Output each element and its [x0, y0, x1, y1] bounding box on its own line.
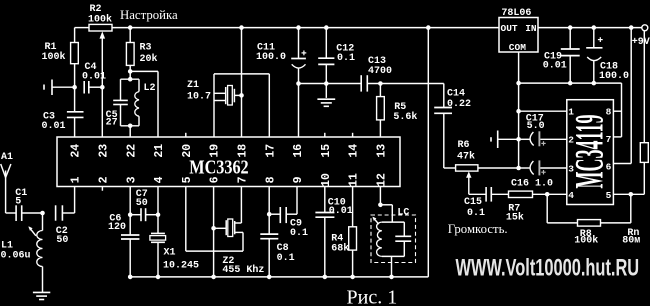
resistor R5 to pin 13: [377, 84, 418, 138]
regulator 78L06: [499, 8, 538, 53]
svg-text:0.1: 0.1: [467, 208, 485, 219]
svg-text:11: 11: [348, 173, 361, 187]
capacitor C13: [361, 56, 392, 92]
svg-text:19: 19: [209, 144, 222, 158]
pin 15 stub: [324, 133, 326, 137]
node Z2 input junction: [211, 226, 216, 231]
svg-text:24: 24: [70, 144, 83, 158]
wire audio junction row: [299, 83, 444, 85]
capacitor C10: [315, 187, 352, 277]
svg-text:16: 16: [292, 144, 305, 158]
node C11 junction: [296, 81, 301, 86]
svg-text:10.7: 10.7: [187, 92, 211, 103]
svg-text:Настройка: Настройка: [120, 8, 178, 22]
svg-text:2: 2: [98, 176, 111, 183]
svg-text:12: 12: [376, 173, 389, 187]
svg-text:15k: 15k: [506, 211, 524, 223]
op-amp U2 MC34119 box: [567, 100, 614, 205]
wire pin 16 down from C11: [298, 84, 300, 138]
svg-text:A1: A1: [1, 152, 13, 163]
text Громкость volume label: [448, 222, 508, 236]
pin 21 number: [153, 144, 166, 158]
pin 20 stub: [185, 133, 187, 137]
pin 12 number: [376, 173, 389, 187]
svg-text:0.01: 0.01: [543, 61, 567, 72]
wire R6 wiper row: [469, 193, 486, 195]
speaker Rn 80 ohm: [622, 31, 648, 247]
svg-text:17: 17: [264, 144, 277, 158]
antenna A1: [1, 152, 13, 213]
node LC ground: [389, 275, 394, 280]
inductor L2 tank right branch: [135, 79, 156, 126]
wire pin 1 row: [519, 110, 567, 112]
svg-text:1: 1: [568, 107, 574, 118]
capacitor C4: [82, 62, 106, 94]
node pin 4 feedback junction: [545, 192, 550, 197]
ceramic filter Z1 10.7MHz: [187, 80, 242, 105]
node C6 ground: [128, 275, 133, 280]
svg-text:0.1: 0.1: [337, 53, 355, 64]
node Z1 output on pin 18 wire: [239, 93, 244, 98]
ground under L1: [33, 292, 50, 299]
wire pin 5 bracket under Z2: [186, 187, 243, 252]
wire +9V rail from 78L06 IN to +9V terminal: [538, 27, 642, 29]
svg-text:3: 3: [568, 164, 574, 175]
wire pin 1 corner: [74, 187, 76, 214]
capacitor C11 electrolytic: [256, 25, 306, 83]
wire R2 wiper with arrow to pin 23: [100, 31, 106, 137]
svg-text:14: 14: [348, 144, 361, 158]
wire into LC tank: [380, 205, 392, 222]
wire bottom ground rail: [130, 276, 428, 278]
svg-text:0.01: 0.01: [42, 121, 66, 132]
svg-text:20: 20: [181, 144, 194, 158]
wire pin 5 row: [613, 193, 644, 195]
capacitor C9: [269, 187, 308, 240]
svg-text:MC34119: MC34119: [566, 115, 611, 189]
LC tank bottom node: [382, 256, 405, 277]
wire ground bus right: [519, 83, 622, 137]
wire pin 6 up to +9V rail: [613, 25, 633, 163]
svg-text:20k: 20k: [140, 53, 158, 65]
microphone input jack left: [44, 80, 75, 96]
node rail R3 junction: [128, 25, 133, 30]
node R6/C16 junction: [516, 166, 521, 171]
svg-text:5.6k: 5.6k: [393, 111, 417, 123]
wire pin 3 down: [129, 187, 131, 215]
svg-text:23: 23: [98, 144, 111, 158]
node R1/C4/C3 junction: [72, 85, 77, 90]
svg-text:0.01: 0.01: [329, 206, 353, 217]
svg-text:68k: 68k: [331, 243, 349, 255]
svg-text:MC3362: MC3362: [189, 156, 248, 178]
svg-text:0.1: 0.1: [290, 228, 308, 239]
pin 18 number: [237, 144, 250, 158]
pin 3 number: [125, 176, 138, 183]
pin 5 label: [606, 190, 612, 201]
tank circuit top node: [121, 71, 140, 81]
svg-text:R3: R3: [140, 43, 152, 54]
pin 20 number: [181, 144, 194, 158]
svg-text:100k: 100k: [88, 13, 112, 25]
svg-text:+9V: +9V: [632, 37, 650, 48]
svg-text:455 Khz: 455 Khz: [222, 264, 264, 276]
svg-text:8: 8: [264, 176, 277, 183]
text MC34119: [566, 115, 611, 189]
svg-text:7: 7: [237, 176, 250, 183]
pin 17 number: [264, 144, 277, 158]
capacitor C17 electrolytic: [519, 113, 567, 146]
node C8 ground: [267, 275, 272, 280]
svg-text:5.0: 5.0: [527, 121, 545, 132]
text Настройка tuning label: [120, 8, 178, 22]
svg-text:C16 1.0: C16 1.0: [511, 178, 553, 189]
capacitor C8: [260, 234, 294, 277]
capacitor C of LC tank: [395, 222, 411, 256]
node antenna coupling junction: [40, 211, 45, 216]
svg-text:6: 6: [606, 161, 612, 172]
node pin 4 junction: [156, 212, 161, 217]
svg-text:Z1: Z1: [187, 80, 199, 91]
ground under C12: [317, 84, 335, 107]
svg-text:5: 5: [15, 197, 21, 208]
svg-text:7: 7: [606, 134, 612, 145]
svg-text:80м: 80м: [622, 235, 640, 246]
wire COM lead down: [518, 52, 520, 83]
node pin 8 junction: [267, 212, 272, 217]
svg-text:WWW.Volt10000.hut.RU: WWW.Volt10000.hut.RU: [456, 255, 640, 282]
node microphone junction: [516, 137, 521, 142]
svg-text:C15: C15: [464, 197, 482, 208]
pin 4 label: [568, 190, 574, 201]
wire +6V supply rail from R2 to 78L06 OUT: [112, 27, 499, 29]
resistor R7: [506, 191, 567, 223]
wire feedback down: [547, 194, 577, 223]
pin 11 number: [348, 173, 361, 187]
text watermark WWW.Volt10000.hut.RU: [456, 255, 640, 282]
svg-text:2: 2: [568, 134, 574, 145]
svg-text:10: 10: [320, 173, 333, 187]
svg-text:18: 18: [237, 144, 250, 158]
svg-text:1: 1: [70, 176, 83, 183]
wire input bus down from COM: [518, 83, 520, 168]
svg-text:4: 4: [153, 176, 166, 183]
inductor L1: [1, 213, 43, 292]
svg-text:COM: COM: [509, 42, 526, 53]
svg-text:50: 50: [136, 198, 148, 209]
wire from R3 junction to pin 21: [130, 71, 158, 137]
svg-text:IN: IN: [525, 23, 537, 34]
wire long vertical bus rail to bottom ground rail: [426, 25, 431, 277]
pin 8 number: [264, 176, 277, 183]
pin 9 number: [292, 176, 305, 183]
text Рис. 1 caption: [347, 287, 398, 306]
pin 7 label: [606, 134, 612, 145]
ceramic filter Z2 455kHz: [214, 187, 265, 276]
pin 2 number: [98, 176, 111, 183]
node C10 ground: [323, 275, 328, 280]
svg-text:120: 120: [108, 222, 126, 233]
svg-text:0.01: 0.01: [82, 72, 106, 83]
svg-text:100k: 100k: [42, 51, 66, 63]
pin 23 number: [98, 144, 111, 158]
svg-text:4700: 4700: [368, 66, 392, 77]
node pin 6 ground: [211, 275, 216, 280]
wire R2 left end down to R1: [75, 28, 89, 43]
capacitor C2: [56, 205, 75, 246]
pin 15 number: [320, 144, 333, 158]
potentiometer R2: [88, 4, 112, 31]
pin 24 number: [70, 144, 83, 158]
svg-text:0.1: 0.1: [277, 253, 295, 264]
tank circuit bottom node to pin 22: [121, 124, 140, 138]
svg-text:5: 5: [181, 176, 194, 183]
wire R1 bottom to node: [74, 64, 76, 87]
wire pin 6 down to ground rail: [213, 187, 215, 277]
node R5 junction: [378, 81, 383, 86]
capacitor C16 electrolytic: [511, 160, 567, 189]
resistor R1: [42, 42, 79, 64]
pin 22 number: [125, 144, 138, 158]
node X1 ground: [156, 275, 161, 280]
node C12 junction: [324, 81, 329, 86]
pin 1 number: [70, 176, 83, 183]
LC tank dashed box: [371, 207, 416, 262]
svg-text:13: 13: [376, 144, 389, 158]
wire pin 12 down to LC tank: [379, 187, 381, 205]
svg-text:5: 5: [606, 190, 612, 201]
pin 13 number: [376, 144, 389, 158]
capacitor C15: [464, 187, 509, 219]
pin 6 label: [606, 161, 612, 172]
svg-text:100.0: 100.0: [256, 52, 286, 63]
svg-text:X1: X1: [164, 248, 176, 259]
node pin 1 junction: [516, 109, 521, 114]
crystal X1 10.245MHz: [150, 187, 199, 277]
svg-text:21: 21: [153, 144, 166, 158]
svg-text:0.22: 0.22: [447, 99, 471, 110]
svg-text:0.06u: 0.06u: [1, 251, 31, 262]
svg-text:27: 27: [106, 118, 118, 129]
svg-text:100k: 100k: [574, 235, 598, 247]
pin 14 number: [348, 144, 361, 158]
IC U1 MC3362 box: [57, 137, 400, 187]
pin 16 number: [292, 144, 305, 158]
node wiper/C4 junction: [100, 85, 105, 90]
pin 2 stub: [101, 187, 103, 191]
node pin 12 junction: [378, 203, 383, 208]
svg-text:22: 22: [125, 144, 138, 158]
node R4 ground: [350, 275, 355, 280]
wire pin 18 from supply rail: [239, 25, 244, 137]
svg-text:OUT: OUT: [501, 23, 518, 34]
pin 8 label: [606, 107, 612, 118]
svg-text:4: 4: [568, 190, 574, 201]
node COM ground junction: [516, 81, 521, 86]
pin 2 label: [568, 134, 574, 145]
potentiometer R6 volume: [456, 140, 519, 194]
svg-text:78L06: 78L06: [501, 8, 531, 19]
capacitor C14: [434, 84, 471, 169]
node pin 3 junction: [128, 212, 133, 217]
svg-text:3: 3: [125, 176, 138, 183]
svg-text:50: 50: [56, 235, 68, 246]
svg-text:10.245: 10.245: [163, 260, 199, 271]
resistor R3: [126, 28, 157, 72]
capacitor C6: [108, 213, 139, 277]
pin 10 number: [320, 173, 333, 187]
resistor R4: [331, 187, 356, 277]
wire feedback up to pin 5: [601, 194, 631, 223]
svg-text:6: 6: [209, 176, 222, 183]
wire pin 8 down: [268, 187, 270, 235]
node R3 bottom junction: [128, 69, 133, 74]
pin 1 label: [568, 107, 574, 118]
capacitor C12: [318, 25, 355, 83]
svg-text:LC: LC: [397, 207, 409, 218]
pin 7 number: [237, 176, 250, 183]
svg-text:9: 9: [292, 176, 305, 183]
pin 6 number: [209, 176, 222, 183]
svg-text:Громкость.: Громкость.: [448, 222, 508, 236]
node pin 5 junction: [629, 192, 634, 197]
svg-text:100.0: 100.0: [599, 71, 629, 82]
svg-text:R6: R6: [458, 140, 470, 151]
pin 19 number: [209, 144, 222, 158]
svg-text:8: 8: [606, 107, 612, 118]
capacitor C1: [6, 188, 43, 221]
capacitor C3 in series to pin 24: [42, 87, 84, 137]
microphone input jack right: [491, 131, 519, 149]
wire bracket over Z1 to pin 17: [214, 74, 269, 137]
svg-text:Рис. 1: Рис. 1: [347, 287, 398, 306]
pin 14 stub: [352, 133, 354, 137]
inductor L of LC tank: [372, 217, 404, 257]
pin 4 number: [153, 176, 166, 183]
terminal +9V: [632, 25, 650, 48]
pin 5 number: [181, 176, 194, 183]
capacitor C7: [130, 189, 158, 221]
text MC3362: [189, 156, 248, 178]
wire pin 19 up to Z1 bracket: [213, 74, 215, 137]
resistor R8 feedback: [574, 220, 600, 247]
svg-text:47k: 47k: [457, 151, 475, 163]
svg-text:L2: L2: [144, 83, 156, 94]
capacitor C5 tank left branch: [106, 79, 128, 128]
capacitor C19: [543, 25, 580, 85]
capacitor C18 electrolytic: [586, 25, 629, 85]
svg-text:15: 15: [320, 144, 333, 158]
pin 3 label: [568, 164, 574, 175]
